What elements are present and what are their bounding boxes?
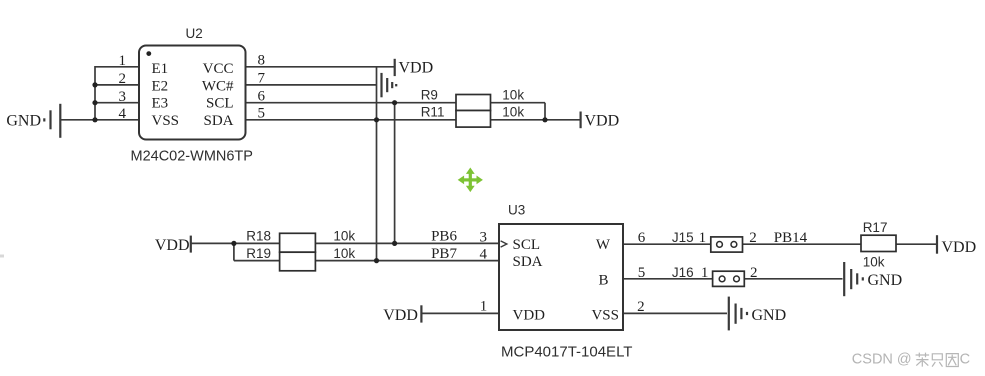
svg-text:C: C [960,352,970,368]
svg-text:SCL: SCL [206,96,234,112]
svg-text:VDD: VDD [585,112,620,129]
svg-text:4: 4 [119,106,127,122]
svg-text:VDD: VDD [513,307,546,323]
svg-text:R9: R9 [421,87,438,102]
svg-text:GND: GND [868,272,903,289]
svg-text:7: 7 [258,71,266,87]
svg-text:R19: R19 [246,246,271,261]
svg-text:10k: 10k [863,255,885,270]
svg-text:E1: E1 [152,61,169,77]
svg-text:SDA: SDA [513,254,543,270]
svg-text:3: 3 [480,229,488,245]
svg-text:3: 3 [119,89,127,105]
svg-text:SDA: SDA [203,113,233,129]
svg-text:5: 5 [258,106,266,122]
svg-text:SCL: SCL [513,237,541,253]
svg-text:VCC: VCC [203,61,234,77]
svg-text:U3: U3 [508,203,525,218]
svg-text:6: 6 [258,89,266,105]
svg-text:WC#: WC# [202,78,234,94]
svg-text:GND: GND [6,112,41,129]
svg-text:VDD: VDD [155,237,190,254]
svg-text:2: 2 [750,265,758,281]
svg-text:R17: R17 [863,220,888,235]
svg-text:4: 4 [480,247,488,263]
svg-text:W: W [596,237,611,253]
svg-text:10k: 10k [333,228,355,243]
svg-text:10k: 10k [502,87,524,102]
svg-text:GND: GND [752,307,787,324]
svg-text:10k: 10k [502,104,524,119]
svg-text:R11: R11 [421,104,445,119]
svg-text:10k: 10k [333,246,355,261]
svg-text:B: B [598,273,608,289]
svg-text:VSS: VSS [591,307,619,323]
svg-text:5: 5 [638,265,646,281]
svg-text:MCP4017T-104ELT: MCP4017T-104ELT [501,344,632,361]
svg-text:R18: R18 [246,228,271,243]
svg-text:VDD: VDD [942,239,977,256]
svg-text:1: 1 [701,265,709,281]
svg-text:J16: J16 [672,265,694,280]
svg-text:8: 8 [258,53,266,69]
svg-text:2: 2 [119,71,127,87]
svg-text:PB7: PB7 [431,246,457,262]
svg-text:VSS: VSS [152,113,180,129]
svg-text:1: 1 [699,230,707,246]
svg-text:CSDN @: CSDN @ [852,352,912,368]
svg-text:1: 1 [480,298,488,314]
svg-text:6: 6 [638,230,646,246]
svg-text:E2: E2 [152,78,169,94]
svg-text:E3: E3 [152,96,169,112]
svg-text:2: 2 [637,299,645,315]
svg-text:J15: J15 [672,230,694,245]
svg-text:1: 1 [119,53,127,69]
svg-text:VDD: VDD [399,60,434,77]
svg-text:2: 2 [749,230,757,246]
svg-text:M24C02-WMN6TP: M24C02-WMN6TP [131,148,253,164]
svg-text:U2: U2 [186,26,203,41]
svg-text:VDD: VDD [383,307,418,324]
svg-text:PB14: PB14 [774,230,808,246]
svg-text:PB6: PB6 [431,229,457,245]
